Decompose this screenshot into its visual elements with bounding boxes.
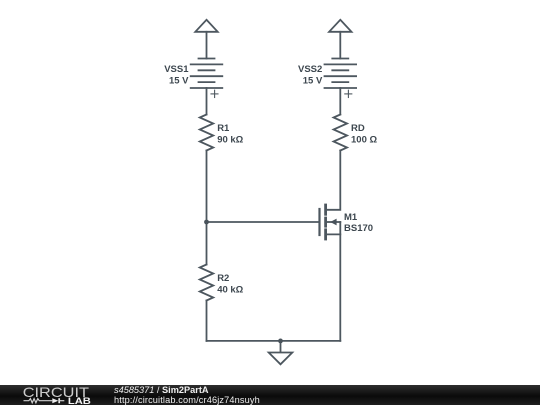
wire R2 to bottom rail — [206, 301, 208, 341]
svg-text:100 Ω: 100 Ω — [351, 135, 377, 146]
wire RD to M1 drain — [326, 151, 341, 210]
label R2 40 kOhm — [217, 273, 243, 296]
resistor R1 — [200, 115, 214, 151]
svg-text:BS170: BS170 — [344, 223, 373, 234]
svg-text:40 kΩ: 40 kΩ — [217, 285, 243, 296]
svg-text:RD: RD — [351, 123, 365, 134]
resistor RD — [334, 115, 348, 151]
battery VSS2 — [325, 59, 357, 98]
label VSS1 15 V — [164, 64, 189, 86]
svg-text:M1: M1 — [344, 212, 358, 223]
svg-text:VSS1: VSS1 — [164, 64, 189, 75]
label R1 90 kOhm — [217, 123, 243, 146]
svg-text:VSS2: VSS2 — [298, 64, 322, 75]
wire R1 to node A and R2 — [206, 151, 208, 265]
svg-text:15 V: 15 V — [169, 75, 189, 86]
wire node A to M1 gate — [207, 221, 320, 223]
resistor R2 — [200, 265, 214, 301]
svg-text:R2: R2 — [217, 273, 229, 284]
wire battery VSS1 to R1 — [206, 88, 208, 115]
wire M1 source/bulk to bottom rail — [339, 222, 341, 341]
svg-text:LAB: LAB — [68, 397, 91, 405]
svg-text:s4585371 / Sim2PartA: s4585371 / Sim2PartA — [114, 385, 209, 395]
power flag arrow VSS1 — [195, 20, 217, 59]
svg-text:90 kΩ: 90 kΩ — [217, 135, 243, 146]
node A junction dot — [204, 220, 209, 225]
svg-text:http://circuitlab.com/cr46jz74: http://circuitlab.com/cr46jz74nsuyh — [114, 395, 260, 405]
transistor M1 — [320, 205, 341, 239]
node junction on bottom rail — [278, 339, 283, 344]
svg-text:R1: R1 — [217, 123, 230, 134]
label RD 100 Ohm — [351, 123, 377, 146]
power flag arrow VSS2 — [329, 20, 351, 59]
footer logo resistor-diode squiggle — [24, 398, 65, 403]
battery VSS1 — [191, 59, 223, 98]
label VSS2 15 V — [298, 64, 323, 86]
label M1 BS170 — [344, 212, 373, 234]
ground — [269, 341, 293, 364]
wire bottom rail — [207, 340, 341, 342]
svg-text:15 V: 15 V — [303, 75, 323, 86]
wire battery VSS2 to RD — [339, 88, 341, 115]
